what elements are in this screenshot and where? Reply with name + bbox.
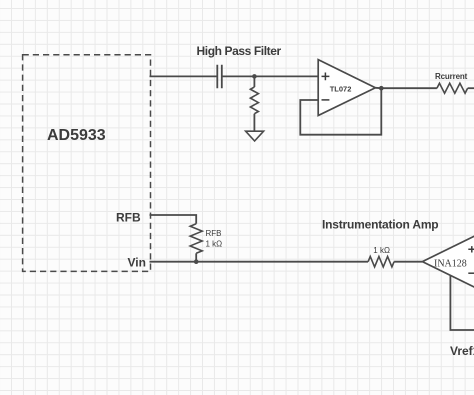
svg-text:High Pass Filter: High Pass Filter [197,44,282,58]
label INA128 [434,259,467,270]
svg-text:INA128: INA128 [434,259,467,270]
wire from AD5933 output pin to capacitor C1 [150,75,218,77]
resistor Rcurrent [437,83,468,93]
wire from node A to op-amp U1 + input [254,75,318,77]
wire op-amp U1 output to node B [375,87,437,89]
wire from capacitor C1 to node A [222,75,255,77]
pin label RFB [116,211,141,225]
label RFB (resistor value) [206,229,222,238]
ground [246,131,264,141]
feedback wire from op-amp U1 - input around to node B [300,88,381,135]
wire from node A down to resistor R1 [253,76,255,87]
node B (output junction dot) [379,86,384,91]
node A (junction dot) [252,74,257,79]
svg-text:RFB: RFB [116,211,141,225]
label Instrumentation Amp [322,217,438,231]
capacitor C1 (high pass filter) [217,65,222,89]
resistor R3 1 kOhm [368,257,394,267]
wire from in-amp U2 lower edge down to Vref [450,275,474,330]
wire from resistor R2 to node C [195,253,197,261]
svg-text:TL072: TL072 [330,84,352,93]
svg-text:Vin: Vin [128,256,146,270]
in-amp U2 + input symbol [468,246,474,252]
resistor R1 (high pass filter, to ground) [250,87,258,114]
svg-text:1 kΩ: 1 kΩ [373,246,390,255]
node C (junction dot on Vin wire) [194,259,199,264]
label TL072 [330,84,352,93]
svg-text:Rcurrent: Rcurrent [435,72,468,81]
svg-text:AD5933: AD5933 [47,127,106,144]
wire from RFB pin to resistor R2 [150,215,197,224]
IC AD5933 (dashed box) [23,55,151,272]
wire from resistor R3 to in-amp U2 [394,261,422,263]
resistor R2 RFB 1 kOhm [190,224,202,254]
svg-text:Instrumentation Amp: Instrumentation Amp [322,217,438,231]
op-amp U1 TL072 (triangle) [318,60,375,116]
label High Pass Filter [197,44,282,58]
wire from Vin pin to resistor R3 [150,261,369,263]
label Vref [450,344,474,358]
in-amp U2 - input symbol [468,272,474,274]
op-amp U1 + input symbol [322,73,330,81]
wire from resistor R1 to ground [253,114,255,132]
wire from resistor Rcurrent to right edge [468,87,474,89]
svg-text:1 kΩ: 1 kΩ [206,239,223,248]
label 1 kOhm (resistor R2 value) [206,239,223,248]
pin label Vin [128,256,146,270]
svg-text:Vref1: Vref1 [450,344,474,358]
svg-text:RFB: RFB [206,229,222,238]
in-amp U2 INA128 (triangle, clipped at right edge) [422,229,474,293]
label AD5933 [47,127,106,144]
label 1 kOhm (resistor R3 value) [373,246,390,255]
label Rcurrent [435,72,468,81]
op-amp U1 - input symbol [322,99,330,101]
